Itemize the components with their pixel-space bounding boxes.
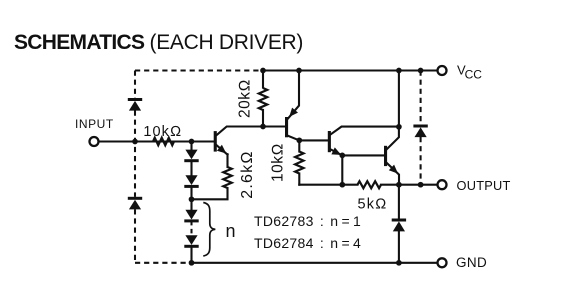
svg-text:SCHEMATICS: SCHEMATICS bbox=[14, 31, 145, 54]
svg-text:20kΩ: 20kΩ bbox=[237, 79, 254, 118]
svg-text:CC: CC bbox=[465, 68, 483, 82]
svg-text:10kΩ: 10kΩ bbox=[143, 124, 182, 140]
svg-text:GND: GND bbox=[456, 255, 487, 270]
svg-text:TD62784 : n = 4: TD62784 : n = 4 bbox=[254, 235, 361, 251]
svg-text:OUTPUT: OUTPUT bbox=[457, 178, 511, 193]
svg-text:TD62783 : n = 1: TD62783 : n = 1 bbox=[254, 213, 361, 229]
svg-text:INPUT: INPUT bbox=[75, 117, 114, 131]
svg-text:(EACH DRIVER): (EACH DRIVER) bbox=[150, 31, 304, 54]
svg-text:2.6kΩ: 2.6kΩ bbox=[239, 150, 256, 199]
svg-text:5kΩ: 5kΩ bbox=[357, 197, 387, 213]
svg-text:10kΩ: 10kΩ bbox=[270, 143, 287, 182]
svg-text:n: n bbox=[226, 221, 236, 241]
